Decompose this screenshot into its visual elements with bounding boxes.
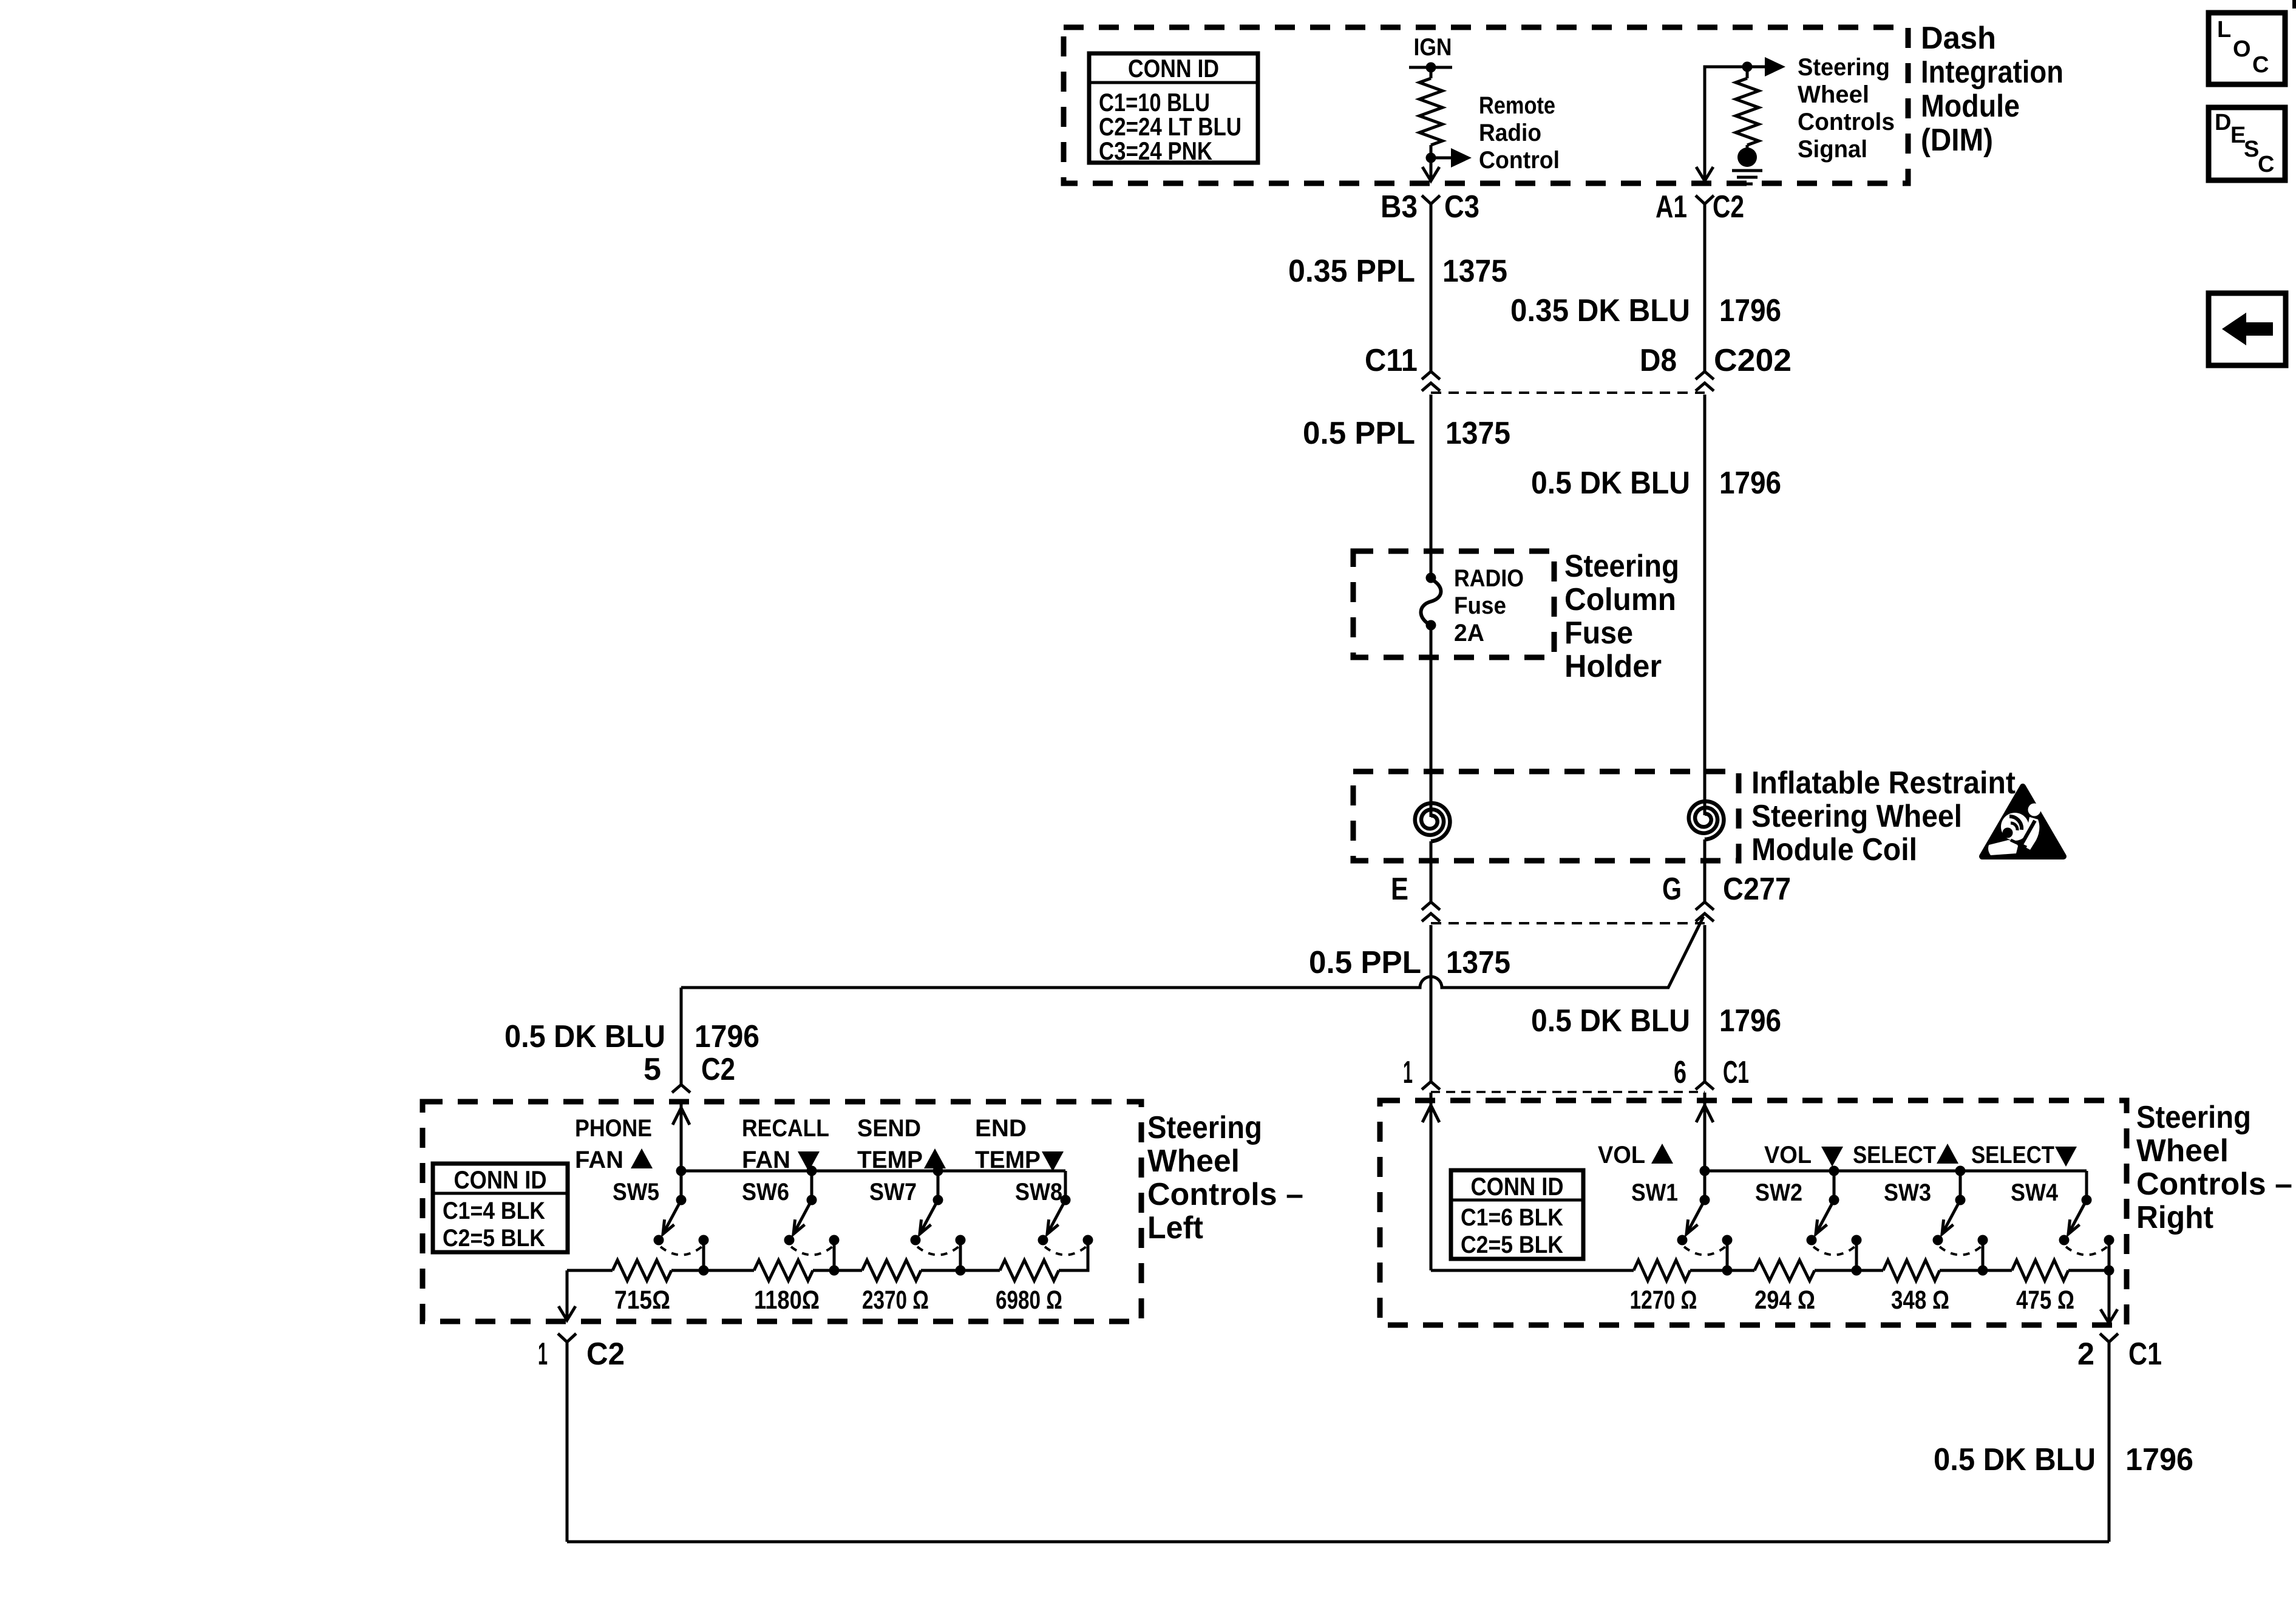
svg-text:Fuse: Fuse: [1564, 615, 1633, 651]
svg-text:0.5 DK BLU: 0.5 DK BLU: [1934, 1442, 2096, 1477]
svg-text:Right: Right: [2136, 1200, 2213, 1235]
svg-text:Wheel: Wheel: [1147, 1144, 1240, 1179]
svg-text:Holder: Holder: [1564, 649, 1662, 684]
svg-text:CONN ID: CONN ID: [454, 1165, 547, 1194]
svg-text:Wheel: Wheel: [2136, 1133, 2229, 1168]
svg-text:Module Coil: Module Coil: [1751, 832, 1917, 867]
svg-text:1375: 1375: [1445, 416, 1510, 451]
svg-text:C1=4 BLK: C1=4 BLK: [443, 1198, 545, 1224]
svg-text:0.5 DK BLU: 0.5 DK BLU: [504, 1019, 665, 1054]
svg-text:FAN: FAN: [742, 1147, 790, 1173]
svg-text:D: D: [2215, 110, 2231, 135]
svg-text:1375: 1375: [1446, 945, 1510, 980]
svg-text:0.5 DK BLU: 0.5 DK BLU: [1531, 466, 1690, 501]
svg-text:SW5: SW5: [613, 1179, 659, 1205]
svg-text:G: G: [1662, 872, 1682, 907]
svg-text:Control: Control: [1479, 147, 1560, 174]
svg-text:1796: 1796: [1719, 293, 1781, 328]
svg-text:715Ω: 715Ω: [614, 1286, 670, 1315]
svg-text:FAN: FAN: [575, 1147, 623, 1173]
svg-text:2: 2: [2077, 1337, 2094, 1372]
svg-text:6: 6: [1674, 1055, 1686, 1090]
svg-text:SW6: SW6: [742, 1179, 789, 1205]
svg-text:C3: C3: [1444, 189, 1479, 225]
svg-text:C: C: [2252, 52, 2269, 78]
svg-text:1796: 1796: [695, 1019, 759, 1054]
svg-text:PHONE: PHONE: [575, 1115, 652, 1142]
svg-text:1796: 1796: [1719, 466, 1781, 501]
svg-text:Radio: Radio: [1479, 120, 1541, 146]
svg-text:0.5 DK BLU: 0.5 DK BLU: [1531, 1003, 1690, 1039]
svg-text:RADIO: RADIO: [1454, 565, 1524, 592]
svg-text:C277: C277: [1723, 872, 1791, 907]
svg-text:C2: C2: [586, 1337, 625, 1372]
svg-text:SW8: SW8: [1015, 1179, 1062, 1205]
svg-text:VOL: VOL: [1598, 1142, 1645, 1168]
svg-text:C1: C1: [1723, 1055, 1749, 1090]
svg-text:Controls: Controls: [1798, 109, 1895, 135]
svg-text:0.35 DK BLU: 0.35 DK BLU: [1510, 293, 1690, 328]
svg-text:C2=5 BLK: C2=5 BLK: [443, 1225, 545, 1252]
svg-text:VOL: VOL: [1764, 1142, 1812, 1168]
svg-text:(DIM): (DIM): [1921, 123, 1993, 158]
svg-text:Left: Left: [1147, 1210, 1203, 1246]
svg-text:SW4: SW4: [2011, 1179, 2059, 1206]
svg-text:294 Ω: 294 Ω: [1754, 1286, 1815, 1315]
svg-text:END: END: [975, 1115, 1027, 1142]
svg-text:C11: C11: [1365, 343, 1418, 378]
svg-text:C3=24 PNK: C3=24 PNK: [1099, 137, 1212, 165]
svg-text:Column: Column: [1564, 582, 1676, 617]
svg-text:Steering: Steering: [1147, 1110, 1262, 1145]
svg-text:SELECT: SELECT: [1971, 1142, 2054, 1168]
svg-text:Steering: Steering: [1798, 54, 1890, 81]
svg-text:SELECT: SELECT: [1853, 1142, 1936, 1168]
svg-text:1375: 1375: [1442, 254, 1507, 289]
svg-text:C1: C1: [2128, 1337, 2162, 1372]
svg-text:0.5 PPL: 0.5 PPL: [1303, 416, 1415, 451]
svg-text:Steering: Steering: [1564, 549, 1679, 584]
svg-text:2370 Ω: 2370 Ω: [862, 1286, 929, 1315]
svg-text:SW3: SW3: [1884, 1179, 1931, 1206]
svg-text:L: L: [2217, 17, 2231, 42]
svg-text:SW2: SW2: [1755, 1179, 1802, 1206]
svg-text:Signal: Signal: [1798, 136, 1867, 163]
svg-text:348 Ω: 348 Ω: [1891, 1286, 1949, 1315]
svg-text:Fuse: Fuse: [1454, 592, 1506, 619]
svg-text:Controls –: Controls –: [2136, 1167, 2292, 1202]
svg-text:D8: D8: [1640, 343, 1677, 378]
svg-text:TEMP: TEMP: [857, 1147, 923, 1173]
svg-text:C2: C2: [1713, 189, 1744, 225]
svg-text:1796: 1796: [2125, 1442, 2193, 1477]
svg-text:Inflatable Restraint: Inflatable Restraint: [1751, 765, 2016, 801]
svg-text:A1: A1: [1656, 189, 1687, 225]
svg-text:2A: 2A: [1454, 620, 1484, 646]
svg-text:1796: 1796: [1719, 1003, 1781, 1039]
svg-text:B3: B3: [1381, 189, 1418, 225]
svg-text:C1=6 BLK: C1=6 BLK: [1461, 1204, 1563, 1231]
svg-text:CONN ID: CONN ID: [1471, 1172, 1564, 1201]
svg-text:Integration: Integration: [1921, 55, 2063, 90]
svg-text:6980 Ω: 6980 Ω: [996, 1286, 1062, 1315]
svg-text:S: S: [2244, 137, 2259, 162]
svg-text:Controls –: Controls –: [1147, 1177, 1303, 1212]
svg-text:1270 Ω: 1270 Ω: [1630, 1286, 1697, 1315]
svg-text:SEND: SEND: [857, 1115, 921, 1142]
svg-text:1: 1: [538, 1337, 548, 1372]
svg-text:475 Ω: 475 Ω: [2016, 1286, 2074, 1315]
svg-text:C: C: [2258, 152, 2274, 177]
svg-text:E: E: [1391, 872, 1408, 907]
svg-text:CONN ID: CONN ID: [1128, 54, 1219, 83]
svg-text:C2=5 BLK: C2=5 BLK: [1461, 1232, 1563, 1258]
svg-text:1180Ω: 1180Ω: [754, 1286, 820, 1315]
svg-text:SW7: SW7: [869, 1179, 917, 1205]
svg-text:TEMP: TEMP: [975, 1147, 1041, 1173]
svg-text:Remote: Remote: [1479, 92, 1555, 119]
svg-text:0.5 PPL: 0.5 PPL: [1309, 945, 1421, 980]
svg-text:Wheel: Wheel: [1798, 81, 1869, 108]
svg-text:5: 5: [644, 1052, 661, 1087]
svg-text:Steering: Steering: [2136, 1100, 2251, 1135]
svg-text:Dash: Dash: [1921, 21, 1996, 56]
svg-text:SW1: SW1: [1631, 1179, 1678, 1206]
svg-text:O: O: [2233, 36, 2251, 62]
svg-text:0.35 PPL: 0.35 PPL: [1288, 254, 1415, 289]
svg-text:1: 1: [1403, 1055, 1413, 1090]
svg-text:C2: C2: [701, 1052, 735, 1087]
svg-text:C202: C202: [1714, 343, 1792, 378]
svg-text:Steering Wheel: Steering Wheel: [1751, 799, 1962, 834]
svg-text:Module: Module: [1921, 89, 2020, 124]
svg-text:RECALL: RECALL: [742, 1115, 829, 1142]
svg-text:IGN: IGN: [1414, 34, 1452, 61]
